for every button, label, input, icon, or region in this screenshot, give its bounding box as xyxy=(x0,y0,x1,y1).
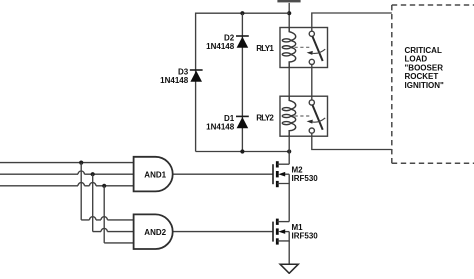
relay RLY1 coil xyxy=(289,28,296,68)
transistor M1 body arrow xyxy=(284,231,290,233)
wire: supply bar down to RLY1 coil xyxy=(288,3,290,28)
diode D1 body xyxy=(237,117,249,128)
transistor M2 source lead xyxy=(277,174,289,183)
diode D3 cathode bar xyxy=(190,69,203,71)
transistor M1 drain lead xyxy=(277,221,289,223)
svg-text:1N4148: 1N4148 xyxy=(206,42,235,51)
gate AND1 body xyxy=(134,157,173,192)
critical load dashed box xyxy=(392,5,474,163)
wire: top rail to diode branches xyxy=(196,13,290,151)
svg-text:ROCKET: ROCKET xyxy=(405,72,439,81)
relay RLY1 box xyxy=(280,28,328,68)
power supply bar (VCC rail, clipped at top) xyxy=(277,0,300,2)
svg-text:IRF530: IRF530 xyxy=(292,232,319,241)
transistor M2 drain lead xyxy=(277,163,289,165)
transistor M1 channel segments xyxy=(276,219,279,225)
svg-text:LOAD: LOAD xyxy=(405,55,428,64)
relay RLY1 dashed actuation link xyxy=(295,46,312,48)
diode D2 body xyxy=(237,37,249,48)
wire: input rail B xyxy=(0,173,134,175)
svg-text:IGNITION": IGNITION" xyxy=(405,81,445,90)
wire: RLY2 coil bottom to flyback rail / M2 drain xyxy=(288,136,290,164)
transistor M1 source lead xyxy=(277,232,289,241)
junction: rail B tap xyxy=(91,172,95,176)
wire: tap C down to AND2 input 3 xyxy=(103,186,105,243)
wire: RLY1 switch top contact to critical load xyxy=(312,13,392,31)
wire: RLY2 switch bottom to critical load xyxy=(312,133,392,149)
junction: coil/drain node xyxy=(287,149,291,153)
svg-text:IRF530: IRF530 xyxy=(292,174,319,183)
relay RLY2 dashed actuation link xyxy=(295,115,312,117)
transistor M2 gate bar xyxy=(272,164,274,184)
svg-text:1N4148: 1N4148 xyxy=(160,76,189,85)
junction: rail C tap xyxy=(102,184,106,188)
svg-text:CRITICAL: CRITICAL xyxy=(405,46,442,55)
transistor M1 gate bar xyxy=(272,222,274,242)
wire: tap B down to AND2 input 2 xyxy=(92,174,94,231)
ground xyxy=(280,264,298,273)
wire: RLY1 coil bottom to RLY2 coil top xyxy=(288,68,290,97)
svg-text:RLY2: RLY2 xyxy=(256,113,274,122)
junction: supply node xyxy=(287,11,291,15)
relay RLY2 switch bottom contact xyxy=(309,128,314,133)
relay RLY2 coil xyxy=(289,96,296,136)
wire: AND2 output to M1 gate xyxy=(174,231,274,233)
wire: tap A down to AND2 input 1 xyxy=(80,163,82,220)
wire: M2 source to M1 drain xyxy=(288,184,290,222)
transistor M2 channel segments xyxy=(276,161,279,167)
relay RLY1 switch pivot contact xyxy=(309,31,314,36)
wire: RLY1 switch bottom to RLY2 switch top xyxy=(311,65,313,100)
diode D1 cathode bar xyxy=(236,115,249,117)
wire: input rail C xyxy=(0,185,134,187)
junction: D1 bottom node xyxy=(240,149,244,153)
relay RLY2 switch blade xyxy=(312,105,322,130)
diode D3 body xyxy=(190,71,202,82)
relay RLY1 actuation arrow xyxy=(312,49,326,53)
relay RLY2 actuation arrow xyxy=(312,118,326,122)
junction: D2 top node xyxy=(240,11,244,15)
svg-text:RLY1: RLY1 xyxy=(256,44,274,53)
svg-text:AND1: AND1 xyxy=(144,171,166,180)
svg-text:AND2: AND2 xyxy=(144,228,166,237)
wire: AND1 output to M2 gate xyxy=(174,173,274,175)
diode D2 cathode bar xyxy=(236,35,249,37)
relay RLY2 box xyxy=(280,96,328,136)
relay RLY2 switch pivot contact xyxy=(309,100,314,105)
gate AND2 body xyxy=(134,214,173,249)
wire: M1 source to ground xyxy=(288,241,290,264)
relay RLY1 switch blade xyxy=(312,36,322,61)
relay RLY1 switch bottom contact xyxy=(309,59,314,64)
junction: rail A tap xyxy=(79,161,83,165)
wire: bottom flyback rail xyxy=(196,151,290,153)
svg-text:"BOOSER: "BOOSER xyxy=(405,63,444,72)
wire: D1/D2 branch vertical xyxy=(241,13,243,151)
svg-text:1N4148: 1N4148 xyxy=(206,122,235,131)
wire: input rail A xyxy=(0,162,134,164)
transistor M2 body arrow xyxy=(284,173,290,175)
